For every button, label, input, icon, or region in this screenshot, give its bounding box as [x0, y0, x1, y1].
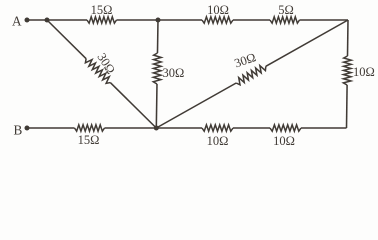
- svg-text:30Ω: 30Ω: [163, 66, 185, 80]
- svg-text:10Ω: 10Ω: [273, 134, 295, 148]
- svg-text:30Ω: 30Ω: [233, 50, 258, 70]
- svg-text:10Ω: 10Ω: [207, 3, 229, 17]
- svg-text:15Ω: 15Ω: [91, 3, 113, 17]
- svg-text:5Ω: 5Ω: [278, 3, 294, 17]
- svg-text:10Ω: 10Ω: [207, 134, 229, 148]
- svg-text:A: A: [12, 13, 22, 28]
- svg-text:B: B: [14, 122, 23, 137]
- svg-text:10Ω: 10Ω: [353, 65, 375, 79]
- svg-text:15Ω: 15Ω: [78, 133, 100, 147]
